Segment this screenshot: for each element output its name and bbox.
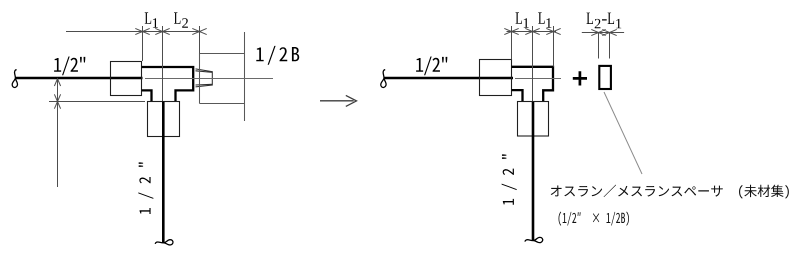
centerline of run (left) xyxy=(145,78,273,80)
witness line at tee mouth (x=142) xyxy=(142,26,144,61)
male threaded cone end of tee xyxy=(196,69,213,87)
centerline of run (right) xyxy=(515,78,561,80)
label L1 (right drawing, second span) xyxy=(538,12,551,27)
union nut (left side of tee) xyxy=(111,62,142,96)
dimension line L2-L1 xyxy=(582,32,624,34)
pipe break symbol (left branch bottom) xyxy=(155,240,173,245)
note text line 1: male run / female run spacer (Japanese) xyxy=(551,185,789,199)
spacer component (male/female run spacer) xyxy=(599,66,611,89)
label L2-L1 xyxy=(587,13,622,29)
arrow (assembly transformation) xyxy=(320,95,357,106)
union nut (left side of right tee) xyxy=(480,60,512,96)
tee fitting body (right drawing) xyxy=(512,67,554,102)
branch union nut (left drawing) xyxy=(148,102,180,137)
dimension line L1/L1 (right) xyxy=(507,31,557,33)
pipe break symbol (right pipe inlet) xyxy=(381,70,386,88)
dimension arrowheads (L2-L1) xyxy=(591,29,616,35)
branch union nut (right drawing) xyxy=(518,102,549,137)
witness line at branch nut top (horizontal) xyxy=(49,101,145,103)
label 1/2" rotated (right branch size) xyxy=(502,154,517,204)
wire: 1/2 inch branch pipe (vertical, left drawing) xyxy=(162,102,165,243)
witness line at branch axis (x=163) xyxy=(162,26,164,101)
label 1/2" rotated (left branch size) xyxy=(138,162,153,214)
note text line 2: (1/2" x 1/2B) xyxy=(559,212,629,226)
dimension arrowheads (left L1/L2) xyxy=(135,28,206,34)
tee fitting body (left drawing) xyxy=(142,67,194,102)
witness line at right tee end xyxy=(553,26,555,67)
dimension arrowheads (right L1/L1) xyxy=(504,28,560,34)
wire: 1/2 inch supply pipe (horizontal run, right drawing) xyxy=(384,77,513,80)
label L2 (left drawing) xyxy=(174,12,188,27)
label 1/2B xyxy=(256,46,299,65)
label L1 (right drawing, first span) xyxy=(516,12,529,27)
label L1 (left drawing) xyxy=(145,12,158,27)
1/2B adapter block outline xyxy=(200,32,245,121)
witness line at adapter face (x=199.8) xyxy=(199,26,201,53)
dimension line L1/L2 (left) xyxy=(66,31,200,33)
plus sign (add spacer) xyxy=(573,71,587,85)
wire: 1/2 inch branch pipe (vertical, right drawing) xyxy=(532,102,535,241)
witness line at right branch axis xyxy=(532,26,534,102)
witness line at right tee mouth xyxy=(511,26,513,60)
leader line to spacer note xyxy=(604,92,642,174)
wire: 1/2 inch supply pipe (horizontal run, left drawing) xyxy=(15,77,142,80)
vertical dimension line (run axis to branch nut face) xyxy=(57,79,59,187)
label 1/2" (right pipe size) xyxy=(416,56,447,75)
witness lines for spacer thickness xyxy=(599,33,610,59)
label 1/2" (left pipe size) xyxy=(54,56,85,75)
pipe break symbol (left pipe inlet) xyxy=(12,70,17,88)
pipe break symbol (right branch bottom) xyxy=(525,237,543,242)
